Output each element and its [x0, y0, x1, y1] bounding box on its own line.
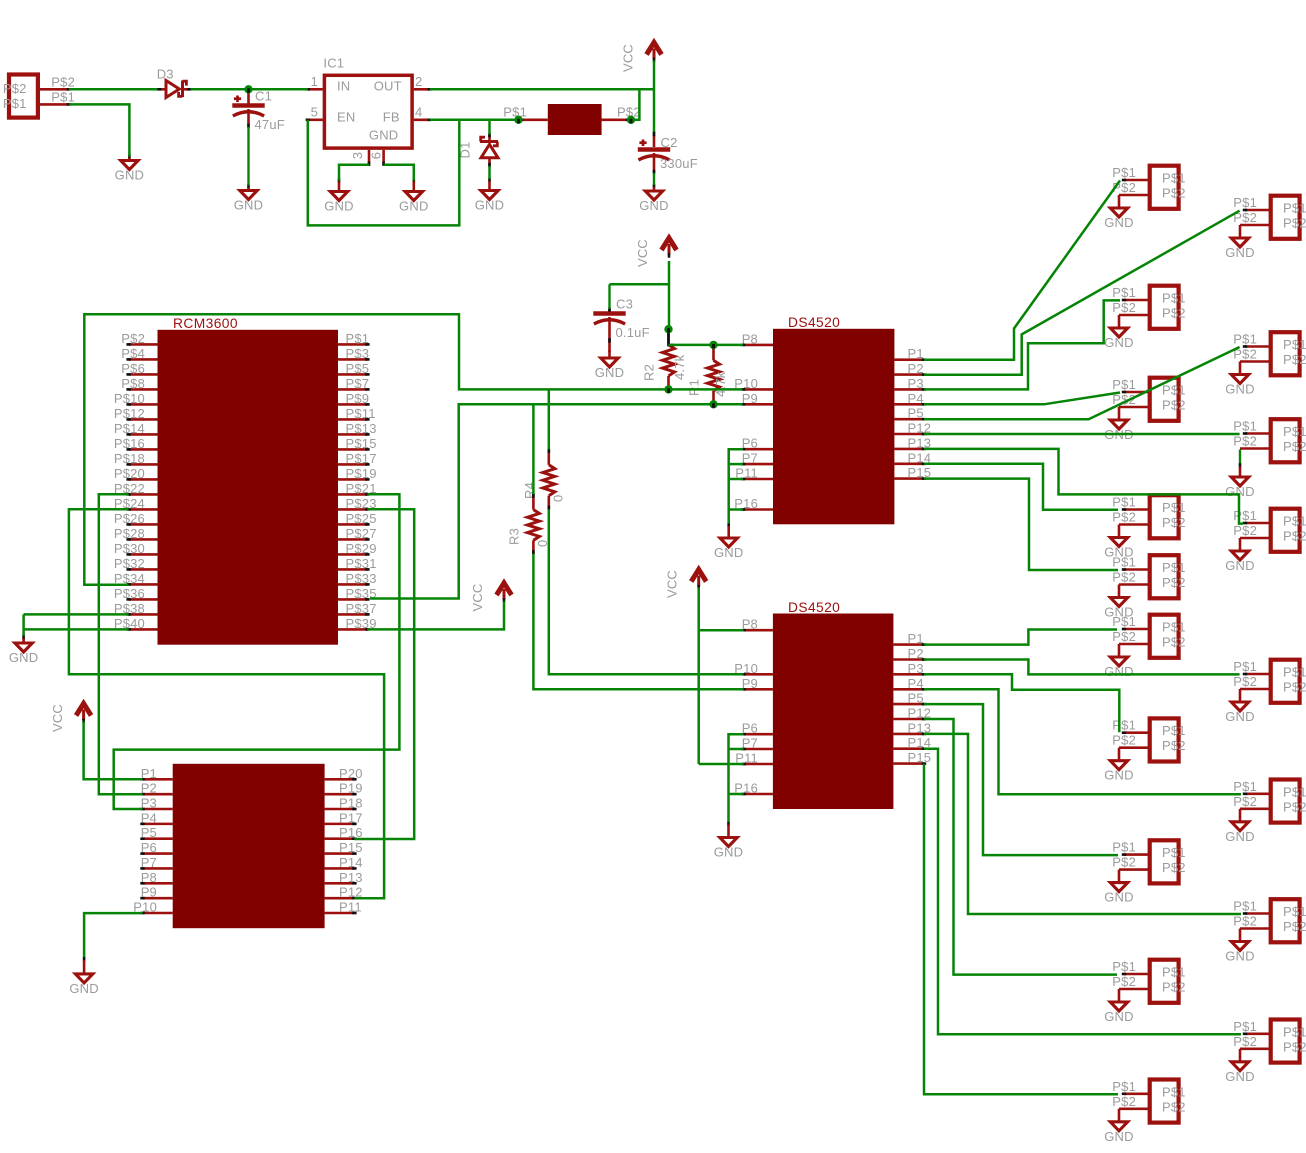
node junction VCC/R2 [664, 325, 672, 333]
svg-text:6: 6 [369, 152, 384, 159]
svg-text:P$1: P$1 [1283, 784, 1306, 799]
wire U3 P4 to JB6 [924, 689, 1241, 794]
svg-text:P$32: P$32 [114, 556, 145, 571]
svg-text:P$2: P$2 [1112, 974, 1136, 989]
svg-text:VCC: VCC [470, 583, 485, 611]
svg-text:P$2: P$2 [121, 331, 145, 346]
svg-text:P7: P7 [742, 451, 758, 466]
wire U2 P12 to JB3 [924, 433, 1240, 436]
svg-text:P$19: P$19 [346, 466, 377, 481]
svg-text:P$1: P$1 [346, 331, 370, 346]
svg-text:P$33: P$33 [346, 571, 377, 586]
svg-text:P$2: P$2 [1112, 510, 1136, 525]
svg-text:P5: P5 [141, 825, 157, 840]
VCC symbol (DS4520 U3) [665, 570, 707, 599]
svg-text:P$2: P$2 [3, 81, 27, 96]
wire U3 P2 to JB5 [924, 660, 1240, 675]
svg-text:P$2: P$2 [1283, 529, 1306, 544]
svg-text:P13: P13 [339, 870, 363, 885]
svg-text:P2: P2 [908, 646, 924, 661]
svg-text:P$1: P$1 [1162, 560, 1186, 575]
svg-text:P$3: P$3 [346, 346, 370, 361]
capacitor C1 [232, 88, 285, 185]
svg-text:P$1: P$1 [3, 96, 27, 111]
wire U3 ground rail [729, 734, 744, 822]
svg-text:P9: P9 [742, 391, 758, 406]
svg-text:P$2: P$2 [1162, 980, 1186, 995]
wire GND rail left [22, 614, 25, 635]
svg-text:P15: P15 [339, 840, 363, 855]
svg-text:P$2: P$2 [1162, 186, 1186, 201]
svg-text:P1: P1 [908, 346, 924, 361]
svg-text:GND: GND [1104, 1009, 1134, 1024]
svg-text:P$17: P$17 [346, 451, 377, 466]
svg-text:GND: GND [714, 545, 744, 560]
svg-text:GND: GND [369, 128, 399, 143]
svg-text:P2: P2 [908, 361, 924, 376]
svg-text:GND: GND [1104, 215, 1134, 230]
ground (C1) [234, 184, 264, 212]
wire VCC to U4 P1 [84, 722, 143, 780]
svg-text:P4: P4 [141, 810, 157, 825]
svg-text:P$1: P$1 [1233, 419, 1257, 434]
diode D1 [458, 133, 499, 179]
wire X1 P$2 to D3 [69, 88, 158, 91]
wire U3 P14 to JB8 [924, 749, 1241, 1035]
svg-text:P3: P3 [908, 376, 924, 391]
IC DS4520 U3 [734, 600, 931, 809]
svg-text:VCC: VCC [665, 570, 680, 598]
svg-text:P$2: P$2 [1112, 855, 1136, 870]
wire U2 ground rail [729, 449, 743, 523]
svg-text:P$1: P$1 [1283, 201, 1306, 216]
svg-text:P$2: P$2 [1233, 523, 1257, 538]
svg-text:P$18: P$18 [114, 451, 145, 466]
svg-text:GND: GND [475, 198, 505, 213]
svg-text:P$1: P$1 [1162, 723, 1186, 738]
IC U4 20-pin [133, 764, 362, 928]
ground (C2) [639, 184, 669, 213]
svg-text:P7: P7 [742, 736, 758, 751]
node junction R1/P9 [709, 400, 717, 408]
ground (C3) [595, 350, 625, 380]
svg-text:R3: R3 [507, 528, 522, 545]
connector JA4 [1104, 495, 1185, 560]
IC DS4520 U2 [734, 315, 931, 524]
connector JA1 [1104, 165, 1185, 230]
svg-text:P5: P5 [908, 406, 924, 421]
svg-text:D3: D3 [157, 66, 174, 81]
connector JA10 [1104, 1079, 1185, 1144]
wire L1 P$2 to OUT [631, 89, 639, 120]
svg-text:VCC: VCC [621, 44, 636, 72]
svg-text:P$1: P$1 [1233, 779, 1257, 794]
svg-text:C3: C3 [616, 296, 633, 311]
svg-text:P1: P1 [141, 766, 157, 781]
svg-text:P$8: P$8 [121, 376, 145, 391]
wire U3 P13 to JB7 [924, 734, 1241, 914]
svg-text:P$20: P$20 [114, 466, 145, 481]
svg-text:P$1: P$1 [1112, 165, 1136, 180]
svg-text:P20: P20 [339, 766, 363, 781]
connector JB5 [1225, 659, 1306, 724]
svg-text:P$1: P$1 [51, 90, 75, 105]
svg-text:GND: GND [1225, 949, 1255, 964]
svg-text:P$7: P$7 [346, 376, 370, 391]
wire U2 P13 to JB4 [924, 449, 1243, 524]
svg-text:P$2: P$2 [1233, 794, 1257, 809]
svg-text:P$31: P$31 [346, 556, 377, 571]
svg-text:P8: P8 [742, 617, 758, 632]
ground (U4 P10) [69, 957, 99, 996]
svg-text:P$2: P$2 [1112, 733, 1136, 748]
svg-text:P$2: P$2 [1283, 216, 1306, 231]
svg-text:P9: P9 [742, 676, 758, 691]
diode D3 [157, 66, 192, 97]
svg-text:P$1: P$1 [503, 105, 527, 120]
wire EN loop [308, 120, 460, 226]
svg-text:GND: GND [234, 198, 264, 213]
svg-text:P$2: P$2 [1162, 515, 1186, 530]
svg-text:P$12: P$12 [114, 406, 145, 421]
connector JB2 [1225, 332, 1306, 397]
svg-text:P18: P18 [339, 796, 363, 811]
svg-text:0.1uF: 0.1uF [616, 325, 650, 340]
svg-text:P3: P3 [141, 796, 157, 811]
svg-text:GND: GND [324, 199, 354, 214]
svg-text:P$1: P$1 [1283, 904, 1306, 919]
svg-text:P$2: P$2 [1162, 398, 1186, 413]
VCC symbol (top right) [621, 43, 662, 73]
connector JA2 [1104, 285, 1185, 350]
svg-text:DS4520: DS4520 [788, 315, 840, 330]
svg-text:P$25: P$25 [346, 511, 377, 526]
wire U3 P5 to JA8 [924, 704, 1118, 855]
connector JB1 [1225, 195, 1306, 260]
svg-text:GND: GND [1104, 1129, 1134, 1144]
wire IC1 pin6 to GND [384, 165, 414, 181]
svg-text:P$10: P$10 [114, 391, 145, 406]
svg-text:P$2: P$2 [1233, 914, 1257, 929]
ground (IC1 pin3) [324, 178, 354, 213]
svg-text:4.7k: 4.7k [713, 371, 728, 397]
svg-text:P$11: P$11 [346, 406, 376, 421]
svg-text:P$1: P$1 [1162, 291, 1186, 306]
wire U2 P2 to JB1 [924, 211, 1240, 375]
svg-text:GND: GND [595, 365, 625, 380]
wire C1 to junction [247, 92, 250, 104]
svg-text:P6: P6 [742, 436, 758, 451]
svg-text:GND: GND [69, 981, 99, 996]
svg-text:P$30: P$30 [114, 541, 145, 556]
VCC symbol (U4 P1) [50, 704, 91, 733]
svg-text:P$27: P$27 [346, 526, 377, 541]
svg-text:P$1: P$1 [1283, 665, 1306, 680]
svg-text:GND: GND [9, 650, 39, 665]
wire U3 P1 to JA6 [924, 630, 1117, 645]
svg-text:P$1: P$1 [1162, 171, 1186, 186]
svg-text:P$16: P$16 [114, 436, 145, 451]
node junction L1 P$2 [627, 116, 635, 124]
wire C3 stem [608, 284, 610, 309]
wire R4 bottom to U3 P10 [549, 509, 744, 674]
svg-text:P3: P3 [908, 661, 924, 676]
wire P8 row U2 [669, 344, 744, 347]
wire U2 P4 to JA3 [924, 393, 1120, 405]
svg-text:0: 0 [551, 495, 566, 502]
svg-text:P$1: P$1 [1233, 1019, 1257, 1034]
svg-text:P$1: P$1 [1112, 614, 1136, 629]
svg-text:P$28: P$28 [114, 526, 145, 541]
svg-text:P$1: P$1 [1162, 383, 1186, 398]
svg-text:3: 3 [350, 152, 365, 159]
svg-text:P$4: P$4 [121, 346, 145, 361]
svg-text:1: 1 [311, 74, 318, 89]
svg-text:P9: P9 [141, 885, 157, 900]
svg-text:IN: IN [337, 79, 350, 94]
svg-text:GND: GND [639, 198, 669, 213]
svg-text:C2: C2 [661, 135, 678, 150]
svg-text:P$1: P$1 [1112, 1079, 1136, 1094]
svg-text:P$2: P$2 [1283, 439, 1306, 454]
svg-text:P6: P6 [742, 721, 758, 736]
svg-text:P$1: P$1 [1162, 500, 1186, 515]
svg-text:R1: R1 [687, 379, 702, 396]
svg-text:P$2: P$2 [1283, 1039, 1306, 1054]
connector JB4 [1225, 508, 1306, 573]
inductor L1 [503, 104, 640, 135]
svg-text:P$1: P$1 [1112, 959, 1136, 974]
svg-text:R2: R2 [642, 364, 657, 381]
svg-text:R4: R4 [522, 482, 537, 499]
svg-text:P$36: P$36 [114, 586, 145, 601]
svg-text:P$1: P$1 [1112, 285, 1136, 300]
wire U2 P14 to JA4 [924, 464, 1118, 510]
svg-text:P$2: P$2 [1233, 1034, 1257, 1049]
wire U3 P12 to JA9 [924, 719, 1117, 975]
wire VCC rail U3 [699, 588, 744, 765]
connector JA3 [1104, 377, 1185, 442]
ground (P$38 P$40) [9, 635, 39, 665]
svg-text:P$2: P$2 [1112, 570, 1136, 585]
svg-text:P$1: P$1 [1112, 495, 1136, 510]
resistor R4 [522, 449, 566, 510]
ground (X1 P$1) [115, 154, 145, 182]
wire net P$22-P2 [99, 494, 143, 794]
node junction R1/P8 [709, 341, 717, 349]
wire D3 to IC1 IN [191, 88, 308, 91]
svg-text:4.7k: 4.7k [672, 354, 687, 380]
wire U2 P1 to JA1 [924, 181, 1120, 360]
resistor R1 [687, 344, 729, 405]
wire U3 P3 to JA7 [924, 674, 1119, 732]
svg-text:P$1: P$1 [1162, 620, 1186, 635]
svg-text:P1: P1 [908, 631, 924, 646]
svg-text:P$1: P$1 [1162, 1084, 1186, 1099]
wire P$39 to VCC [367, 601, 504, 629]
svg-text:P$1: P$1 [1283, 337, 1306, 352]
capacitor C3 [593, 296, 649, 352]
svg-text:P$1: P$1 [1162, 845, 1186, 860]
connector JB6 [1225, 779, 1306, 844]
svg-text:47uF: 47uF [255, 117, 285, 132]
svg-text:P$1: P$1 [1283, 1024, 1306, 1039]
svg-text:P$14: P$14 [114, 421, 145, 436]
svg-text:P$1: P$1 [1283, 424, 1306, 439]
connector X1 power input [3, 74, 75, 117]
IC IC1 regulator [306, 56, 433, 166]
svg-text:GND: GND [115, 168, 145, 183]
wire U2 P15 to JA5 [924, 479, 1118, 570]
svg-text:GND: GND [1225, 709, 1255, 724]
svg-text:P$2: P$2 [51, 74, 75, 89]
svg-text:P$2: P$2 [1162, 860, 1186, 875]
wire net P$34-P10 [84, 314, 742, 585]
ground (DS4520 U3) [714, 821, 744, 859]
wire R3 top link [532, 404, 535, 494]
svg-text:P5: P5 [908, 691, 924, 706]
node junction C1/IN [244, 85, 252, 93]
svg-text:GND: GND [1225, 1069, 1255, 1084]
wire R4 top link [548, 389, 551, 449]
wire net P$35-P9 [370, 404, 743, 598]
svg-text:P$2: P$2 [1283, 919, 1306, 934]
svg-text:GND: GND [1225, 829, 1255, 844]
svg-text:GND: GND [399, 199, 429, 214]
svg-text:GND: GND [1104, 335, 1134, 350]
VCC symbol (above C3) [635, 238, 677, 267]
ground (D1) [475, 178, 505, 213]
svg-text:P$2: P$2 [1162, 635, 1186, 650]
connector JA6 [1104, 614, 1185, 679]
wire net P$23-P16 [354, 509, 414, 839]
ground (IC1 pin6) [399, 178, 429, 213]
connector JB7 [1225, 899, 1306, 964]
svg-text:GND: GND [1104, 890, 1134, 905]
svg-text:DS4520: DS4520 [788, 600, 840, 615]
svg-text:GND: GND [1104, 768, 1134, 783]
svg-text:5: 5 [311, 105, 318, 120]
wire VCC2 to C3 and R2 [610, 261, 670, 329]
wire net P$21-P3 [114, 494, 400, 809]
connector JA8 [1104, 840, 1185, 905]
wire U3 P15 to JA10 [924, 764, 1118, 1095]
svg-text:FB: FB [383, 109, 400, 124]
node junction R2/P10 [664, 385, 672, 393]
svg-text:GND: GND [714, 845, 744, 860]
svg-text:P4: P4 [908, 391, 924, 406]
svg-text:P$2: P$2 [1283, 799, 1306, 814]
svg-text:GND: GND [1225, 382, 1255, 397]
svg-text:P$1: P$1 [1112, 718, 1136, 733]
svg-text:P$13: P$13 [346, 421, 377, 436]
svg-text:P$37: P$37 [346, 601, 377, 616]
svg-text:P4: P4 [908, 676, 924, 691]
svg-text:P19: P19 [339, 781, 363, 796]
svg-text:P$2: P$2 [1162, 575, 1186, 590]
wire net P$24-P12 [69, 509, 384, 898]
svg-text:P$1: P$1 [1112, 555, 1136, 570]
IC RCM3600 U1 [114, 316, 377, 645]
svg-text:P$1: P$1 [1162, 965, 1186, 980]
svg-text:P$9: P$9 [346, 391, 370, 406]
svg-text:GND: GND [1225, 558, 1255, 573]
wire D1 drop [488, 120, 491, 135]
svg-text:P$2: P$2 [1162, 1099, 1186, 1114]
svg-text:2: 2 [415, 74, 422, 89]
wire X1 P$1 to GND [69, 104, 129, 156]
connector JA7 [1104, 718, 1185, 783]
svg-text:EN: EN [337, 109, 355, 124]
svg-text:P$6: P$6 [121, 361, 145, 376]
svg-text:OUT: OUT [374, 79, 402, 94]
connector JA9 [1104, 959, 1185, 1024]
connector JB3 [1225, 419, 1306, 500]
svg-text:P$2: P$2 [1112, 629, 1136, 644]
svg-text:P$26: P$26 [114, 511, 145, 526]
svg-text:P$1: P$1 [1233, 899, 1257, 914]
wire VCC to C2 [653, 61, 656, 137]
wire IC1 pin3 to GND [339, 165, 369, 181]
connector JA5 [1104, 555, 1185, 620]
wire U2 P5 to JB2 [924, 347, 1240, 419]
svg-text:P2: P2 [141, 781, 157, 796]
svg-text:P$2: P$2 [1112, 1094, 1136, 1109]
svg-text:P$2: P$2 [1283, 680, 1306, 695]
svg-text:P15: P15 [908, 750, 932, 765]
svg-text:P$1: P$1 [1233, 659, 1257, 674]
capacitor C2 [638, 135, 698, 186]
svg-text:RCM3600: RCM3600 [173, 316, 238, 331]
wire R3 bottom to U3 P9 [533, 554, 743, 690]
svg-text:P$1: P$1 [1233, 332, 1257, 347]
svg-text:P8: P8 [742, 331, 758, 346]
wire U2 P3 to JA2 [924, 300, 1120, 389]
svg-text:P11: P11 [339, 899, 362, 914]
resistor R2 [642, 329, 688, 391]
svg-text:P8: P8 [141, 870, 157, 885]
VCC symbol (P$39) [470, 583, 512, 612]
wire OUT row [430, 88, 654, 91]
svg-text:VCC: VCC [635, 239, 650, 267]
svg-text:P$1: P$1 [1112, 840, 1136, 855]
svg-text:P$15: P$15 [346, 436, 377, 451]
svg-text:P$1: P$1 [1112, 377, 1136, 392]
svg-text:P$2: P$2 [1162, 306, 1186, 321]
svg-text:IC1: IC1 [323, 56, 344, 71]
svg-text:P7: P7 [141, 855, 157, 870]
ground (DS4520 U2) [714, 523, 744, 560]
svg-text:VCC: VCC [50, 704, 65, 732]
svg-text:330uF: 330uF [660, 156, 698, 171]
svg-text:GND: GND [1225, 245, 1255, 260]
resistor R3 [507, 493, 551, 554]
wire U4 P10 to GND [84, 913, 142, 957]
svg-text:4: 4 [415, 105, 422, 120]
svg-text:P$2: P$2 [1162, 738, 1186, 753]
svg-text:GND: GND [1104, 664, 1134, 679]
svg-text:P$1: P$1 [1233, 508, 1257, 523]
svg-text:P$2: P$2 [1233, 434, 1257, 449]
svg-text:P$1: P$1 [1233, 195, 1257, 210]
svg-text:P6: P6 [141, 840, 157, 855]
svg-text:P$5: P$5 [346, 361, 370, 376]
svg-text:P$2: P$2 [1283, 352, 1306, 367]
wire P$40 to GND rail [24, 628, 129, 631]
wire P$38 to GND rail [24, 613, 129, 616]
svg-text:P14: P14 [339, 855, 363, 870]
node junction L1 P$1 [514, 116, 522, 124]
